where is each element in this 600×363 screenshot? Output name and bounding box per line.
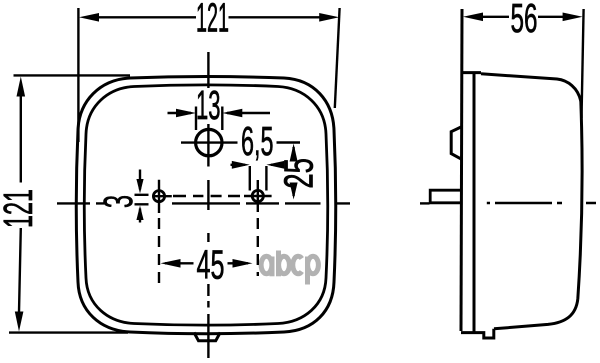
side view: plate bottom edge with notch: [461, 329, 494, 338]
side view: lens top edge + top-right corner: [481, 74, 581, 101]
arrow dim121top right: [319, 13, 339, 22]
svg-text:3: 3: [95, 195, 141, 208]
svg-text:45: 45: [197, 242, 225, 288]
vertical centerline (front view): [207, 52, 209, 358]
arrow dim3 down (lower, pointing up): [136, 206, 143, 221]
arrow dim121left top: [17, 77, 26, 97]
right hole crosshair: [244, 180, 272, 212]
arrow dim65 left: [232, 161, 250, 169]
svg-text:25: 25: [275, 158, 321, 189]
lamp horizontal centerline y=203.4: [57, 202, 350, 204]
dim 13: dimension line + extensions: [168, 107, 271, 131]
left hole dashed line down: [158, 218, 160, 283]
side view: lens bottom edge + bottom-right corner: [494, 299, 578, 329]
side view: back plate rear line + 56 left extension: [461, 9, 462, 331]
side view: lens right edge: [578, 101, 582, 299]
arrow dim65 right: [266, 161, 284, 169]
dim 121 left: top extension line: [14, 74, 131, 76]
arrow dim13 right: [222, 109, 242, 118]
side view: centerline left segment: [420, 202, 430, 204]
arrow dim3 up (upper, pointing down): [136, 179, 143, 194]
svg-text:6,5: 6,5: [241, 118, 274, 164]
side view: lower connector tab: [430, 190, 461, 203]
svg-text:121: 121: [196, 0, 229, 40]
dim 121 top: right extension line: [335, 8, 340, 108]
dim 121 left: bottom extension line: [9, 331, 128, 333]
arrow dim56 right: [563, 13, 583, 22]
svg-text:13: 13: [196, 82, 221, 128]
right hole 6,5mm: [252, 190, 263, 201]
side view: back plate front line: [473, 74, 476, 332]
watermark abcp: [261, 251, 318, 285]
arrow dim45 right: [233, 259, 253, 268]
dim 25: dimension line + extensions: [277, 143, 301, 197]
dim 121 top: left extension line: [77, 8, 79, 142]
dim 45: dimension line: [165, 262, 248, 264]
arrow dim121top left: [79, 13, 99, 22]
dim 121 top: dimension line: [98, 16, 320, 18]
arrow dim45 left: [161, 259, 181, 268]
svg-text:121: 121: [0, 189, 41, 228]
bottom mounting tab (front view): [194, 333, 220, 341]
left hole 6,5mm: [153, 191, 164, 202]
arrow dim25 up: [290, 144, 298, 162]
lamp body outer contour (front view): [76, 77, 336, 334]
lamp body inner contour (front view): [84, 85, 328, 325]
dim 6,5: dimension line + extensions: [231, 165, 282, 191]
side view: centerline: [487, 202, 596, 204]
dim 56: dimension line: [482, 16, 567, 18]
arrow dim25 down: [290, 183, 298, 200]
left hole crosshair: [153, 180, 172, 213]
hole axis centerline y=196: [173, 195, 240, 197]
dim 3: dimension line + tick extensions: [135, 170, 149, 223]
arrow dim13 left: [176, 109, 196, 118]
arrow dim121left bottom: [15, 312, 24, 332]
svg-text:56: 56: [511, 0, 538, 41]
top hole circle 13mm: [196, 129, 222, 155]
side view: plate top edge: [461, 71, 481, 74]
dim 56: right extension line: [582, 9, 584, 118]
right hole dashed line down: [257, 218, 259, 276]
top hole crosshair horizontal: [181, 141, 238, 143]
dim 121 left: dimension line: [19, 96, 21, 312]
arrow dim56 left: [463, 13, 483, 22]
side view: upper clip tab: [451, 127, 461, 159]
